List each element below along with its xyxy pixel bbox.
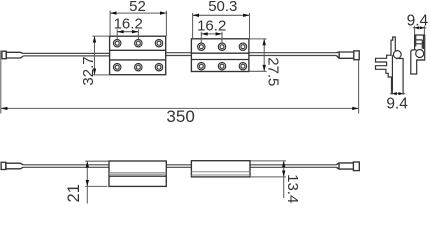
gear block 1 strip lines (110, 50, 166, 60)
gear block 2 screw holes top row (198, 43, 247, 70)
wire rod right end cap (354, 51, 359, 60)
svg-text:16.2: 16.2 (197, 18, 226, 35)
left profile outline (376, 37, 404, 93)
gear block 2 body (191, 39, 249, 72)
wire rod right sleeve (336, 51, 359, 60)
svg-text:52: 52 (129, 0, 146, 15)
gear block 1 screw holes bottom row (114, 63, 121, 70)
svg-text:27.5: 27.5 (264, 57, 281, 86)
housing 1 internal lines (109, 173, 166, 175)
gear block 1 body (110, 36, 166, 74)
svg-text:50.3: 50.3 (208, 0, 237, 15)
gear block 1 screw holes top row (114, 40, 163, 71)
dimension 32.7 (92, 36, 109, 75)
left profile rod circle (393, 51, 401, 59)
dimension 13.4 (250, 161, 286, 198)
dimension 21 (85, 161, 109, 203)
svg-text:13.4: 13.4 (284, 174, 301, 203)
bottom rod shaft middle segment (166, 165, 191, 168)
right profile outline (411, 35, 425, 74)
right profile rod circle (416, 50, 424, 58)
housing 1 (bottom view of block 1) (109, 161, 166, 186)
dimension 9.4 bottom (390, 91, 405, 95)
svg-text:21: 21 (65, 184, 83, 202)
dimension 52 (110, 11, 166, 36)
svg-text:16.2: 16.2 (114, 16, 143, 33)
wire rod shaft right segment (249, 53, 337, 56)
dimension 9.4 top (413, 26, 427, 35)
wire rod left end cap (2, 51, 23, 59)
svg-text:9.4: 9.4 (386, 96, 408, 113)
svg-text:350: 350 (166, 107, 194, 126)
bottom rod right end cap (353, 162, 359, 171)
svg-text:9.4: 9.4 (407, 13, 429, 30)
wire rod left sleeve (6, 52, 23, 58)
dimension 16.2 block 1 (117, 29, 138, 39)
dimension 50.3 (193, 13, 250, 39)
bottom rod left sleeve (6, 163, 23, 169)
dimension 350 (1, 51, 359, 114)
bottom rod left end cap (1, 162, 23, 169)
bottom rod right sleeve (336, 162, 359, 171)
svg-text:32.7: 32.7 (80, 56, 97, 85)
gear block 2 screw holes bottom row (198, 62, 205, 69)
housing 2 (bottom view of block 2) (191, 161, 250, 177)
dimension 16.2 block 2 (201, 32, 222, 43)
wire rod shaft middle segment (166, 53, 192, 56)
dimension 27.5 (249, 39, 267, 71)
gear block 2 strip lines (191, 53, 249, 59)
bottom rod shaft right segment (250, 165, 336, 168)
bottom rod shaft left segment (23, 165, 336, 168)
housing 2 internal lines (191, 172, 250, 175)
wire rod shaft left segment (23, 53, 336, 56)
